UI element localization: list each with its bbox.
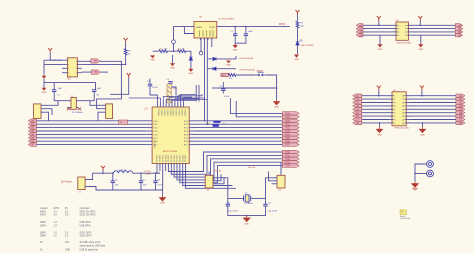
U4 right pin 6 bbox=[406, 112, 411, 114]
svg-text:P3.5/INT: P3.5/INT bbox=[171, 155, 173, 162]
svg-text:8: 8 bbox=[76, 61, 77, 63]
connector USB J2 body bbox=[167, 84, 171, 103]
svg-text:9: 9 bbox=[394, 123, 395, 125]
wire C3 top to RST rail bbox=[222, 82, 224, 89]
wire D2 net bbox=[207, 58, 213, 60]
Q5 pins bbox=[272, 177, 278, 179]
U3 right pin 2 bbox=[408, 28, 413, 30]
svg-text:GND: GND bbox=[233, 50, 238, 52]
svg-text:P3.2/INT: P3.2/INT bbox=[185, 155, 187, 162]
svg-text:2: 2 bbox=[398, 29, 399, 31]
svg-text:+CPKLF4148-6B: +CPKLF4148-6B bbox=[239, 69, 255, 71]
wire U1 power pins down bbox=[157, 169, 160, 174]
wire net left 2 bbox=[363, 28, 392, 30]
wire crystal horizontal net bbox=[228, 197, 244, 199]
svg-text:0.1uF: 0.1uF bbox=[152, 87, 158, 89]
U1 right pins bbox=[189, 120, 195, 122]
wire Q3 to crystal block bbox=[90, 101, 101, 106]
svg-text:P0.0/AD0: P0.0/AD0 bbox=[157, 109, 160, 116]
port L8 (U4 left) bbox=[353, 121, 362, 124]
svg-text:SOIC CH-GPIO: SOIC CH-GPIO bbox=[80, 215, 96, 217]
svg-text:P0.2/AD2: P0.2/AD2 bbox=[163, 109, 166, 116]
wire net U4 right 6 bbox=[411, 112, 456, 114]
ground GND arrow (reset) bbox=[274, 99, 280, 104]
capacitor C11 bbox=[263, 204, 267, 206]
svg-text:10: 10 bbox=[402, 123, 404, 125]
wire net left 1 bbox=[363, 24, 392, 26]
svg-text:GND: GND bbox=[378, 49, 383, 51]
port R3 (U3 right) bbox=[455, 34, 463, 37]
port L3 (U4 left) bbox=[353, 104, 362, 107]
wire VCC to row1 right bbox=[419, 21, 421, 26]
transistor Q5 body bbox=[277, 175, 285, 188]
svg-text:GND: GND bbox=[42, 92, 47, 94]
port P01 (right group A) bbox=[282, 115, 299, 118]
svg-text:P0.4/AD4: P0.4/AD4 bbox=[169, 109, 172, 116]
resistor R6 bbox=[296, 21, 299, 28]
svg-text:12V Power: 12V Power bbox=[61, 180, 72, 183]
wire net P26 bbox=[195, 140, 282, 142]
resistor R5 (reset) bbox=[228, 74, 236, 77]
testpoint circle TP2 bbox=[199, 51, 203, 55]
wire net U4 right 9 bbox=[411, 122, 456, 124]
LED D4 bbox=[296, 42, 299, 45]
wire Q4 to crystal net bbox=[218, 178, 228, 199]
port L7 (U4 left) bbox=[353, 118, 362, 121]
svg-text:12.0MHz: 12.0MHz bbox=[244, 203, 252, 205]
port R4 (U4 right) bbox=[456, 108, 465, 111]
svg-text:7: 7 bbox=[394, 116, 395, 118]
U3 right pin 1 bbox=[408, 24, 413, 26]
capacitor C4 bbox=[148, 84, 152, 86]
svg-text:P27: P27 bbox=[286, 144, 291, 147]
svg-text:GND: GND bbox=[377, 134, 382, 136]
wire Q1 to crystal block bbox=[46, 101, 59, 106]
svg-text:16: 16 bbox=[402, 103, 404, 105]
wire net PB4 to U1 bbox=[36, 133, 146, 135]
svg-text:P3.3/INT: P3.3/INT bbox=[165, 155, 167, 162]
title note block bbox=[400, 210, 407, 215]
wire LED to GND bbox=[297, 46, 299, 54]
port PB6 (left stack) bbox=[28, 139, 36, 143]
wire net P27 bbox=[195, 144, 282, 146]
svg-text:L1 10uH: L1 10uH bbox=[118, 170, 126, 172]
port R1 (U3 right) bbox=[455, 27, 463, 30]
resistor R1 bbox=[159, 50, 168, 53]
capacitor C7 bbox=[52, 90, 56, 92]
svg-text:GND: GND bbox=[420, 134, 425, 136]
svg-text:3: 3 bbox=[68, 68, 69, 70]
wire TP2 stem bbox=[200, 38, 202, 51]
IC U2 8-pin body bbox=[67, 58, 77, 77]
ground GND (reg caps) bbox=[233, 45, 238, 48]
svg-text:P0.1/AD1: P0.1/AD1 bbox=[183, 109, 186, 116]
ground GND (LED) bbox=[294, 55, 299, 58]
wire mid rail to GND corner bbox=[226, 87, 277, 89]
ground GND (left of U2) bbox=[42, 88, 47, 91]
svg-text:GND: GND bbox=[294, 59, 299, 61]
wire VCC drop (right of crystal) bbox=[127, 73, 131, 78]
wire net PB5 to U1 bbox=[36, 137, 146, 139]
svg-text:RM7C005-16AC: RM7C005-16AC bbox=[395, 127, 410, 130]
svg-text:6: 6 bbox=[76, 68, 77, 70]
svg-text:P3.1/INT: P3.1/INT bbox=[160, 155, 162, 162]
U4 left pin 2 bbox=[388, 98, 393, 100]
U3 left pin 3 bbox=[392, 31, 397, 33]
ground GND arrow (crystal) bbox=[243, 216, 250, 222]
svg-text:GND: GND bbox=[226, 65, 231, 67]
wire left fanout to port X1 bbox=[129, 97, 150, 99]
port R1 (U4 right) bbox=[456, 97, 465, 100]
wire net right 2 bbox=[413, 28, 455, 30]
svg-text:2: 2 bbox=[394, 99, 395, 101]
U1 left pins bbox=[146, 120, 152, 122]
svg-text:GND: GND bbox=[160, 203, 165, 205]
port L5 (U4 left) bbox=[353, 111, 362, 114]
ground GND (D1) bbox=[188, 69, 193, 72]
svg-text:Cap 15 pF: Cap 15 pF bbox=[228, 211, 238, 213]
wire net U4 right 4 bbox=[411, 105, 456, 107]
U3 pin numbers bbox=[396, 24, 398, 26]
wire net P24 bbox=[195, 133, 282, 135]
ground GND (shield) bbox=[170, 63, 175, 66]
crystal caps marks bbox=[67, 107, 71, 110]
port R6 (U4 right) bbox=[456, 114, 465, 117]
U4 right pin 8 bbox=[406, 119, 411, 121]
wire C4 net bbox=[149, 79, 151, 85]
svg-text:VSS/VCC: VSS/VCC bbox=[155, 139, 157, 148]
svg-text:Comment: Comment bbox=[80, 207, 90, 210]
svg-text:P3.1/INT: P3.1/INT bbox=[182, 155, 184, 162]
capacitor C6 bbox=[112, 173, 114, 181]
capacitor C2 (reg out) bbox=[245, 27, 247, 34]
wire VCC stem (U4 left) bbox=[378, 90, 380, 96]
svg-text:P34: P34 bbox=[286, 165, 291, 168]
wire net U4 left 6 bbox=[362, 112, 388, 114]
wire R5 to button bbox=[236, 74, 255, 76]
port SCK (to U2) bbox=[91, 70, 101, 74]
svg-text:3pF: 3pF bbox=[58, 88, 62, 90]
port L1 (U3 left) bbox=[356, 27, 363, 30]
net label X1 (pink) bbox=[119, 120, 128, 124]
wire net right 1 bbox=[413, 24, 455, 26]
port R7 (U4 right) bbox=[456, 118, 465, 121]
port P32 (right group B) bbox=[282, 157, 299, 160]
port P30 (right group B) bbox=[282, 150, 299, 153]
U4 right pin 4 bbox=[406, 105, 411, 107]
svg-text:GND: GND bbox=[418, 49, 423, 51]
U4 right pin 7 bbox=[406, 115, 411, 117]
svg-text:GND: GND bbox=[188, 73, 193, 75]
svg-text:P0.7/AD7: P0.7/AD7 bbox=[178, 109, 181, 116]
svg-text:Jumper: Jumper bbox=[40, 207, 48, 210]
U1 top pins bbox=[157, 101, 159, 107]
wire bundle U1 bottom to right (staircase) bbox=[168, 152, 282, 172]
svg-text:USB GPIO: USB GPIO bbox=[80, 226, 91, 228]
diode D3 bbox=[213, 67, 216, 70]
capacitor C5 bbox=[168, 82, 172, 84]
svg-text:P01: P01 bbox=[286, 116, 291, 119]
U4 pin numbers bbox=[392, 95, 394, 97]
svg-text:14: 14 bbox=[402, 109, 404, 111]
capacitor C13 bbox=[155, 173, 157, 181]
port R2 (U3 right) bbox=[455, 30, 463, 33]
testpoint circle TP1 bbox=[172, 40, 176, 44]
wire VCC to R4 bbox=[125, 43, 127, 49]
port L1 (U4 left) bbox=[353, 97, 362, 100]
wire net U4 left 1 bbox=[362, 95, 388, 97]
port P27 (right group A) bbox=[282, 143, 299, 146]
svg-text:signal used by USB flash: signal used by USB flash bbox=[80, 246, 106, 248]
svg-text:P3.0/INT: P3.0/INT bbox=[180, 155, 182, 162]
ground GND (D2/D3 area) bbox=[226, 61, 231, 64]
power flag VCC (U2) bbox=[48, 48, 52, 53]
svg-text:SOIC GPIO: SOIC GPIO bbox=[80, 232, 92, 234]
wire net PB7 to U1 bbox=[36, 144, 146, 146]
port PB5 (left stack) bbox=[28, 136, 36, 140]
svg-text:DC5V/1A VREG: DC5V/1A VREG bbox=[219, 17, 235, 20]
U4 left pin 8 bbox=[388, 119, 393, 121]
wire net P25 bbox=[195, 137, 282, 139]
wire crystal to C10 bbox=[227, 198, 229, 204]
svg-text:SOIC CH-GPIO: SOIC CH-GPIO bbox=[80, 211, 96, 213]
wire net left 4 bbox=[363, 34, 392, 36]
svg-text:4: 4 bbox=[68, 73, 69, 75]
svg-text:3: 3 bbox=[398, 32, 399, 34]
wire C3 bottom bbox=[222, 91, 224, 94]
svg-text:GND: GND bbox=[244, 224, 249, 226]
wire VCC stem (U4 right) bbox=[421, 90, 423, 96]
connector J1 body bbox=[78, 177, 85, 190]
port L0 (U4 left) bbox=[353, 94, 362, 97]
port PB1 (left stack) bbox=[28, 122, 36, 126]
svg-text:GPIO: GPIO bbox=[54, 208, 60, 210]
port PB2 (left stack) bbox=[28, 126, 36, 130]
svg-text:10uF: 10uF bbox=[248, 31, 253, 33]
svg-text:6: 6 bbox=[394, 113, 395, 115]
regulator U5 body bbox=[194, 22, 217, 39]
U3 right pin 3 bbox=[408, 31, 413, 33]
J1 pins bbox=[85, 179, 89, 181]
Q3 pins bbox=[101, 104, 105, 106]
wire net P21 bbox=[195, 123, 282, 125]
port PB7 (left stack) bbox=[28, 143, 36, 147]
svg-text:P0.3/AD3: P0.3/AD3 bbox=[166, 109, 169, 116]
svg-text:RESET: RESET bbox=[256, 71, 264, 73]
svg-text:P0.0/AD0: P0.0/AD0 bbox=[180, 109, 183, 116]
svg-text:5: 5 bbox=[76, 73, 77, 75]
wire net U4 left 9 bbox=[362, 122, 388, 124]
wire R1-R2 junction bbox=[168, 50, 178, 52]
svg-text:Port 3b: Port 3b bbox=[214, 169, 222, 172]
svg-text:Code World: Code World bbox=[400, 217, 410, 220]
wire caps to ground rail bbox=[235, 36, 246, 44]
U3 left pin 4 bbox=[392, 34, 397, 36]
wire net P22 bbox=[195, 127, 282, 129]
svg-text:DC5V: DC5V bbox=[279, 24, 286, 26]
svg-text:GND: GND bbox=[170, 68, 175, 70]
svg-text:P3.2/INT: P3.2/INT bbox=[162, 155, 164, 162]
svg-text:VOUT: VOUT bbox=[209, 27, 216, 29]
svg-text:P3.7/INT: P3.7/INT bbox=[177, 155, 179, 162]
svg-text:4: 4 bbox=[394, 106, 395, 108]
svg-text:JMP2: JMP2 bbox=[40, 215, 47, 217]
svg-text:3pF: 3pF bbox=[97, 88, 101, 90]
svg-text:RST: RST bbox=[222, 75, 227, 77]
svg-text:AT89C5131A-M: AT89C5131A-M bbox=[163, 150, 178, 153]
wire GND stem left bbox=[379, 35, 381, 44]
wire net U4 left 4 bbox=[362, 105, 388, 107]
port P24 (right group A) bbox=[282, 133, 299, 136]
port L6 (U4 left) bbox=[353, 114, 362, 117]
svg-text:4: 4 bbox=[398, 35, 399, 37]
svg-text:RM7C002SOAC: RM7C002SOAC bbox=[397, 41, 412, 44]
svg-text:VREG: VREG bbox=[196, 27, 202, 29]
Q1 pins bbox=[41, 104, 46, 106]
U2 right pins bbox=[78, 60, 82, 62]
wire net U4 right 1 bbox=[411, 95, 456, 97]
U5 bottom pins to vertical nets bbox=[199, 38, 201, 40]
ground GND arrow (U4 right) bbox=[420, 127, 426, 132]
port R0 (U4 right) bbox=[456, 94, 465, 97]
svg-text:P3.4/INT: P3.4/INT bbox=[168, 155, 170, 162]
capacitor C12 bbox=[140, 173, 142, 181]
ground GND arrow (holes) bbox=[412, 181, 419, 187]
svg-text:GND: GND bbox=[274, 107, 279, 109]
U4 left pin 4 bbox=[388, 105, 393, 107]
svg-text:CPKLF4148-6B: CPKLF4148-6B bbox=[239, 58, 254, 60]
wire net U4 left 3 bbox=[362, 102, 388, 104]
ground GND (U3 right) bbox=[418, 44, 423, 47]
port P20 (right group A) bbox=[282, 119, 299, 122]
svg-text:18: 18 bbox=[402, 96, 404, 98]
diode D2 bbox=[213, 57, 216, 60]
svg-text:8: 8 bbox=[405, 25, 406, 27]
port L4 (U4 left) bbox=[353, 108, 362, 111]
U4 right pin 9 bbox=[406, 122, 411, 124]
port R8 (U4 right) bbox=[456, 121, 465, 124]
wire C7 stem bbox=[53, 83, 55, 90]
wire staircase right of U1 (upper) bbox=[183, 169, 233, 186]
svg-text:6: 6 bbox=[405, 32, 406, 34]
U4 left pin 1 bbox=[388, 95, 393, 97]
svg-text:Port 3a: Port 3a bbox=[248, 166, 256, 169]
U1 bottom pins bbox=[156, 163, 158, 168]
wire GND stem U4 left bbox=[379, 123, 381, 127]
port R5 (U4 right) bbox=[456, 111, 465, 114]
svg-text:JMP1: JMP1 bbox=[40, 211, 47, 213]
svg-text:Mt: Mt bbox=[65, 207, 68, 210]
wire net P23 bbox=[195, 130, 282, 132]
port L0 (U3 left) bbox=[356, 24, 363, 27]
port R3 (U4 right) bbox=[456, 104, 465, 107]
svg-text:VSS8: VSS8 bbox=[145, 174, 151, 176]
microcontroller U1 body bbox=[152, 107, 189, 163]
power flag VCC (U4 left) bbox=[377, 86, 381, 91]
svg-text:To USB; share to P3: To USB; share to P3 bbox=[80, 241, 102, 244]
svg-text:5: 5 bbox=[405, 35, 406, 37]
svg-text:11: 11 bbox=[402, 120, 404, 122]
U4 left pin 3 bbox=[388, 102, 393, 104]
power flag VCC (LED) bbox=[296, 10, 300, 15]
wire GND stem U4 right bbox=[422, 123, 424, 127]
ground GND (left of R1) bbox=[150, 55, 155, 58]
wire J1 pin1 up to rail bbox=[89, 173, 114, 179]
wire net right 4 bbox=[413, 34, 455, 36]
wire top rail of crystal block bbox=[44, 83, 96, 90]
power flag VCC (U3 left) bbox=[377, 16, 381, 21]
wire R4 to net junction bbox=[125, 55, 127, 64]
port P21 (right group A) bbox=[282, 123, 299, 126]
transistor Q1 body (left) bbox=[34, 104, 42, 119]
svg-text:7: 7 bbox=[405, 29, 406, 31]
svg-text:0.1uF: 0.1uF bbox=[224, 96, 230, 98]
svg-text:GND: GND bbox=[150, 60, 155, 62]
resistor R4 pull-up bbox=[124, 49, 127, 55]
diode D6 to ground (red) bbox=[42, 76, 47, 79]
wire net U4 left 8 bbox=[362, 119, 388, 121]
power flag VCC (R4) bbox=[124, 38, 128, 43]
svg-text:USB ID signal low: USB ID signal low bbox=[80, 249, 99, 251]
wire caps bottom rail bbox=[228, 206, 266, 216]
svg-text:LED POWER: LED POWER bbox=[301, 45, 314, 47]
port PB0 (left stack) bbox=[28, 119, 36, 123]
wire U5 left pin2 bbox=[184, 27, 194, 34]
wire net U4 right 8 bbox=[411, 119, 456, 121]
ground GND arrow (U4 left) bbox=[377, 127, 383, 132]
ferrite bead FB1 on net (blue) bbox=[213, 121, 220, 123]
zener diode D1 bbox=[189, 57, 192, 60]
svg-text:P0.6/AD6: P0.6/AD6 bbox=[175, 109, 178, 116]
svg-text:P0.5/AD5: P0.5/AD5 bbox=[172, 109, 175, 116]
wire net right 3 bbox=[413, 31, 455, 33]
resistor R2 bbox=[177, 50, 186, 53]
svg-text:1: 1 bbox=[68, 60, 69, 62]
wire U2 pin8 long net right bbox=[82, 61, 122, 108]
wire net U4 right 7 bbox=[411, 115, 456, 117]
U4 right pin 5 bbox=[406, 108, 411, 110]
wire D3 net bbox=[207, 68, 213, 70]
wire U5 input (left) bbox=[174, 27, 195, 40]
wire Q4/Q5 tops to stair nets bbox=[208, 172, 210, 176]
wire net PB0 to U1 bbox=[36, 120, 146, 122]
wire net PB6 to U1 bbox=[36, 140, 146, 142]
wire net left 3 bbox=[363, 31, 392, 33]
power flag VCC (U3 right) bbox=[418, 16, 422, 21]
svg-text:1: 1 bbox=[398, 25, 399, 27]
U4 left pin 7 bbox=[388, 115, 393, 117]
wire VCC to row1 left bbox=[378, 21, 380, 26]
wire Q1 pin3 down to bus bbox=[46, 112, 49, 121]
wire button to GND corner bbox=[266, 75, 277, 99]
crystal Y2 body bbox=[244, 195, 251, 202]
port P00 (right group A) bbox=[282, 112, 299, 115]
port R0 (U3 right) bbox=[455, 24, 463, 27]
port P31 (right group B) bbox=[282, 154, 299, 157]
wire net U4 left 2 bbox=[362, 98, 388, 100]
svg-text:JMP5: JMP5 bbox=[40, 232, 47, 234]
wire U2 pin6 to port SCK bbox=[82, 71, 92, 73]
port L3 (U3 left) bbox=[356, 34, 363, 37]
transistor Q3 body (right) bbox=[106, 104, 113, 119]
U4 right pin 3 bbox=[406, 102, 411, 104]
U3 left pin 1 bbox=[392, 24, 397, 26]
wire bottom ground rail bbox=[89, 187, 163, 191]
svg-text:3: 3 bbox=[394, 103, 395, 105]
wire left rail down to ground bbox=[43, 60, 45, 75]
port P25 (right group A) bbox=[282, 136, 299, 139]
capacitor C10 bbox=[226, 204, 230, 206]
